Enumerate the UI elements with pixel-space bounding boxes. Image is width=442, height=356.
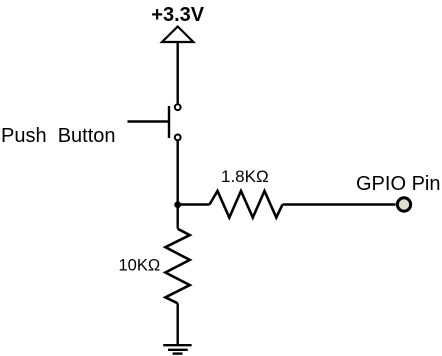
svg-text:10KΩ: 10KΩ [119,257,161,275]
svg-text:1.8KΩ: 1.8KΩ [221,167,269,186]
svg-text:GPIO Pin: GPIO Pin [356,173,440,195]
svg-text:Push Button: Push Button [1,125,116,147]
svg-text:+3.3V: +3.3V [151,4,204,26]
